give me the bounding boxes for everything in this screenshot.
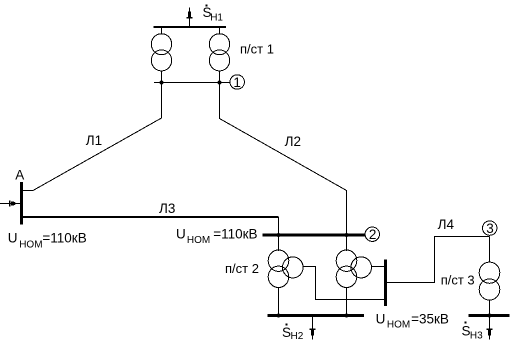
svg-text:НОМ: НОМ bbox=[187, 235, 210, 246]
bus 35kV bar bbox=[384, 260, 387, 307]
junction dot bbox=[277, 314, 281, 318]
label S_H1 bbox=[203, 5, 224, 24]
label S_H3 bbox=[462, 322, 484, 342]
svg-text:Н3: Н3 bbox=[470, 330, 483, 341]
wire T4 tertiary to 35kV bar bbox=[372, 266, 384, 268]
label U_nom=35kV bbox=[376, 311, 449, 330]
svg-text:п/ст 1: п/ст 1 bbox=[240, 42, 274, 57]
bus п/ст 2 secondary bbox=[268, 314, 365, 317]
wire stub to transformer T1 bbox=[161, 27, 163, 35]
load arrow S_H1 bbox=[187, 8, 193, 27]
junction dot bbox=[345, 314, 349, 318]
svg-text:п/ст 2: п/ст 2 bbox=[225, 261, 259, 276]
load arrow S_H2 bbox=[310, 316, 316, 340]
wire node2 bus to transformer T4 bbox=[346, 235, 348, 251]
label S_H2 bbox=[282, 324, 304, 342]
svg-text:=110кВ: =110кВ bbox=[213, 227, 257, 242]
svg-text:3: 3 bbox=[486, 221, 494, 236]
transformer T1 (п/ст 1 left) bbox=[151, 34, 171, 71]
label U_nom=110kV (bus A) bbox=[8, 231, 87, 251]
node 2 bbox=[365, 227, 379, 242]
svg-text:U: U bbox=[376, 311, 386, 326]
svg-text:=35кВ: =35кВ bbox=[411, 311, 449, 326]
svg-text:Л3: Л3 bbox=[159, 201, 175, 216]
junction dot bbox=[488, 314, 492, 318]
svg-text:НОМ: НОМ bbox=[19, 239, 42, 250]
transformer T3 (п/ст 2 left, three-winding) bbox=[268, 250, 303, 287]
node 3 bbox=[483, 221, 497, 236]
svg-text:2: 2 bbox=[369, 227, 377, 242]
wire T1 bottom down bbox=[161, 71, 163, 83]
transformer T2 (п/ст 1 right) bbox=[209, 34, 229, 71]
wire stub to transformer T2 bbox=[219, 27, 221, 35]
junction dot bbox=[218, 81, 222, 85]
svg-text:=110кВ: =110кВ bbox=[42, 231, 86, 246]
svg-text:Н1: Н1 bbox=[210, 12, 223, 23]
svg-text:НОМ: НОМ bbox=[387, 319, 410, 330]
node 1 bbox=[230, 75, 244, 90]
svg-text:п/ст 3: п/ст 3 bbox=[441, 273, 475, 288]
wire T3 tertiary to 35kV bar bbox=[303, 267, 384, 300]
line L3 wire bbox=[22, 216, 279, 218]
wire node2 bus to transformer T3 bbox=[278, 235, 280, 251]
wire T5 secondary down bbox=[489, 300, 491, 316]
load arrow S_H3 bbox=[487, 316, 493, 340]
junction dot bbox=[345, 233, 349, 237]
junction dot bbox=[160, 81, 164, 85]
line L1 wire bbox=[22, 83, 162, 191]
svg-text:А: А bbox=[15, 168, 24, 183]
bus A busbar bbox=[20, 182, 23, 225]
svg-text:Л1: Л1 bbox=[86, 133, 102, 148]
wire T4 secondary down bbox=[346, 287, 348, 316]
label U_nom=110kV (node 2) bbox=[176, 227, 258, 246]
line L4 wire bbox=[387, 237, 490, 283]
bus п/ст 1 top bar bbox=[154, 26, 226, 28]
wire lower connector of п/ст 1 bbox=[154, 82, 231, 84]
junction dot bbox=[277, 233, 281, 237]
line L3 corner down bbox=[278, 217, 280, 235]
svg-text:1: 1 bbox=[233, 75, 241, 90]
svg-text:Л2: Л2 bbox=[285, 134, 301, 149]
svg-text:U: U bbox=[8, 231, 18, 246]
svg-text:Н2: Н2 bbox=[291, 331, 304, 342]
wire T2 bottom down bbox=[219, 71, 221, 83]
transformer T5 (п/ст 3) bbox=[479, 262, 500, 300]
svg-text:Л4: Л4 bbox=[438, 217, 455, 232]
bus п/ст 3 secondary bbox=[468, 314, 509, 317]
source arrow into bus A bbox=[0, 201, 21, 207]
bus node 2 (110kV) bbox=[263, 234, 366, 237]
wire T3 secondary down bbox=[278, 287, 280, 316]
svg-text:U: U bbox=[176, 227, 186, 242]
transformer T4 (п/ст 2 right, three-winding) bbox=[336, 250, 371, 287]
wire node3 to transformer T5 bbox=[489, 237, 491, 263]
line L2 wire bbox=[220, 83, 347, 236]
